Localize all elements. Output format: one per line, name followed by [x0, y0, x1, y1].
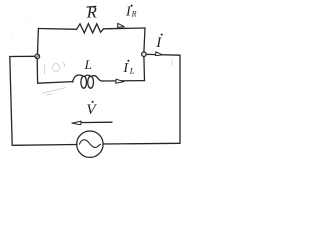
- wire outer left vertical: [10, 57, 12, 146]
- inductor L loop 2: [88, 76, 94, 88]
- faint speckles: [11, 9, 175, 161]
- svg-text:V: V: [86, 102, 97, 118]
- svg-text:I: I: [155, 35, 162, 51]
- wire outer top-left horizontal: [10, 55, 35, 57]
- svg-text:I: I: [122, 61, 129, 76]
- wire top branch left segment: [37, 29, 40, 55]
- wire total current segment: [146, 53, 180, 56]
- wire outer bottom left segment: [12, 144, 77, 147]
- wire bottom branch left segment: [36, 59, 38, 84]
- wire top branch right segment: [104, 27, 145, 30]
- arrowhead I: [156, 52, 163, 56]
- faint pencil smudges: [42, 60, 173, 95]
- voltage arrow line: [76, 121, 112, 123]
- source circle: [77, 131, 103, 157]
- sine wave: [79, 140, 101, 148]
- wire outer bottom right segment: [103, 142, 180, 145]
- wire bottom branch right segment: [103, 80, 145, 82]
- svg-text:L: L: [129, 66, 135, 76]
- resistor R: [77, 24, 104, 33]
- inductor L coil humps: [73, 75, 84, 82]
- node right: [142, 52, 147, 57]
- inductor L loop 1: [81, 76, 87, 88]
- svg-text:L: L: [84, 57, 92, 72]
- svg-text:R: R: [86, 2, 97, 21]
- wire outer right vertical: [179, 55, 181, 143]
- arrowhead V (points left): [72, 121, 81, 125]
- arrowhead IL: [116, 79, 124, 83]
- node left: [35, 54, 40, 59]
- svg-text:R: R: [131, 9, 137, 18]
- arrowhead IR: [118, 23, 125, 27]
